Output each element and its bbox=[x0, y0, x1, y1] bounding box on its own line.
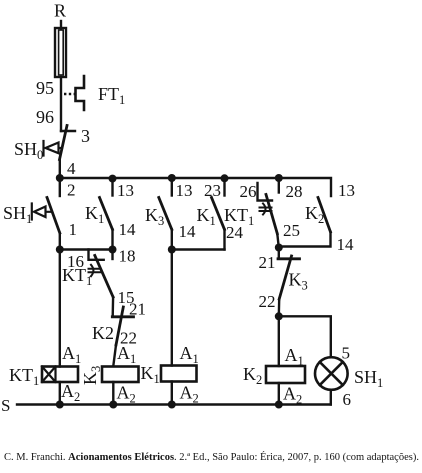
svg-text:S: S bbox=[1, 396, 10, 415]
main bus wire bbox=[60, 178, 331, 196]
svg-text:3: 3 bbox=[81, 126, 90, 146]
wire coil K1 to bus S bbox=[171, 382, 173, 405]
svg-text:26: 26 bbox=[240, 182, 257, 201]
pushbutton SH0 blade bbox=[60, 126, 68, 160]
junction dot K3 branch bbox=[168, 246, 176, 254]
junction dot node 25 bbox=[275, 244, 283, 252]
wire 25 to node bbox=[277, 234, 279, 248]
wire K3 node to coil K1 bbox=[171, 250, 173, 366]
svg-text:K3: K3 bbox=[145, 205, 164, 228]
stub 18 bbox=[111, 250, 113, 260]
wire fuse to node 95 bbox=[60, 77, 62, 131]
contact K2 NC blade bbox=[116, 307, 123, 345]
contact K2 13-14 blade bbox=[318, 198, 331, 233]
junction dot 16/18 node bbox=[109, 246, 117, 254]
svg-text:K1: K1 bbox=[85, 203, 104, 226]
junction dot node 2 bbox=[56, 174, 64, 182]
junction dot K1 13 bbox=[109, 175, 117, 183]
junction dot S-K2 bbox=[275, 401, 283, 409]
wire R to fuse bbox=[60, 21, 62, 29]
svg-text:SH1: SH1 bbox=[3, 203, 32, 226]
wire 22 to node bbox=[278, 299, 281, 316]
svg-text:5: 5 bbox=[342, 344, 351, 363]
lamp SH1 circle bbox=[315, 357, 348, 390]
svg-text:K2: K2 bbox=[92, 323, 114, 343]
coil K3 body bbox=[102, 367, 139, 383]
contact K3 NC top wire bbox=[278, 248, 280, 259]
junction dot K3 13 bbox=[168, 174, 176, 182]
wire node1 to node18 bbox=[60, 248, 113, 250]
svg-text:21: 21 bbox=[259, 253, 276, 272]
fuse F1 outer bbox=[55, 28, 66, 77]
svg-text:A2: A2 bbox=[117, 383, 136, 406]
junction dot S-KT1 bbox=[56, 401, 64, 409]
timed contact KT1 blade bbox=[95, 256, 113, 298]
svg-text:25: 25 bbox=[283, 221, 300, 240]
contact K2 NC crossbar bbox=[112, 315, 133, 318]
svg-text:14: 14 bbox=[337, 235, 355, 254]
svg-text:A1: A1 bbox=[285, 345, 304, 368]
junction dot K1 23 bbox=[221, 174, 229, 182]
wire K3 branch to K1 23 branch bbox=[172, 248, 225, 250]
svg-text:13: 13 bbox=[176, 181, 193, 200]
stub 28 bbox=[278, 178, 280, 193]
contact K1 13-14 blade bbox=[100, 198, 113, 230]
coil K2 body bbox=[266, 366, 305, 383]
junction dot S-K1 bbox=[168, 401, 176, 409]
svg-text:A1: A1 bbox=[180, 343, 199, 366]
wire 22 to coil K3 bbox=[113, 345, 116, 366]
svg-text:C. M. Franchi. Acionamentos El: C. M. Franchi. Acionamentos Elétricos. 2… bbox=[4, 451, 419, 463]
svg-text:K1: K1 bbox=[197, 205, 216, 228]
wire K1 14 down bbox=[111, 230, 113, 250]
timed contact KT1 fixed 26 bbox=[258, 183, 273, 201]
lamp SH1 cross bbox=[320, 362, 343, 385]
junction dot node 1 bbox=[56, 246, 64, 254]
svg-text:13: 13 bbox=[117, 181, 134, 200]
pushbutton SH1 actuator bbox=[32, 204, 52, 220]
svg-text:K2: K2 bbox=[243, 364, 262, 387]
timed contact KT1 right delay symbol bbox=[260, 204, 272, 215]
overload relay contact FT1 bbox=[76, 76, 85, 110]
timed contact KT1 right blade bbox=[266, 195, 277, 234]
junction dot node 26/28 bbox=[275, 174, 283, 182]
wire K3 14 down bbox=[171, 230, 173, 250]
contact K3 13-14 stub bbox=[171, 178, 173, 196]
svg-text:95: 95 bbox=[36, 78, 54, 98]
wire coil KT1 to bus S bbox=[59, 382, 61, 405]
svg-text:A2: A2 bbox=[180, 383, 199, 406]
svg-text:14: 14 bbox=[179, 222, 197, 241]
svg-text:K3: K3 bbox=[289, 270, 308, 293]
wire lamp to bus S bbox=[330, 390, 332, 405]
wire node 22 to lamp bbox=[279, 316, 331, 357]
svg-text:14: 14 bbox=[119, 220, 137, 239]
wire K1 24 down bbox=[223, 230, 225, 250]
pushbutton SH0 actuator bbox=[44, 141, 63, 156]
wire node 4 bbox=[59, 159, 61, 178]
svg-text:SH0: SH0 bbox=[14, 139, 43, 162]
timed contact KT1 delay symbol bbox=[89, 265, 101, 276]
svg-text:6: 6 bbox=[343, 390, 352, 409]
contact K3 NC blade bbox=[279, 256, 291, 299]
svg-text:22: 22 bbox=[259, 292, 276, 311]
coil K1 body bbox=[161, 366, 197, 382]
contact K3 NC crossbar bbox=[278, 257, 300, 260]
svg-text:K1: K1 bbox=[141, 363, 160, 386]
svg-text:R: R bbox=[54, 1, 66, 21]
fuse F1 inner bbox=[59, 30, 64, 75]
svg-text:1: 1 bbox=[69, 220, 78, 239]
pushbutton SH0 fixed tick node 3 bbox=[61, 130, 75, 132]
junction dot node 22 bbox=[275, 312, 283, 320]
dotted actuator link FT1 bbox=[64, 93, 77, 96]
coil KT1 body bbox=[42, 367, 78, 383]
svg-text:2: 2 bbox=[67, 181, 76, 200]
contact K1 23-24 blade bbox=[212, 198, 225, 230]
svg-text:SH1: SH1 bbox=[354, 367, 383, 390]
contact K1 13-14 stub bbox=[111, 178, 113, 196]
wire K2 14 down and left to node 25 bbox=[279, 232, 331, 247]
svg-text:KT1: KT1 bbox=[224, 205, 254, 228]
svg-text:13: 13 bbox=[338, 181, 355, 200]
contact K3 13-14 blade bbox=[159, 198, 172, 230]
timed contact KT1 fixed 16 bbox=[89, 250, 104, 260]
svg-text:28: 28 bbox=[286, 182, 303, 201]
svg-text:18: 18 bbox=[119, 247, 136, 266]
svg-text:KT1: KT1 bbox=[9, 365, 39, 388]
wire node1 to coil KT1 bbox=[59, 250, 61, 367]
pushbutton SH1 stub 2 bbox=[59, 178, 61, 196]
bottom bus S bbox=[17, 403, 331, 405]
wire coil K2 to bus S bbox=[278, 383, 280, 405]
svg-text:4: 4 bbox=[67, 159, 76, 178]
svg-text:A2: A2 bbox=[283, 384, 302, 407]
junction dot S-K3 bbox=[109, 401, 117, 409]
pushbutton SH1 blade bbox=[47, 198, 60, 234]
contact K1 23-24 stub bbox=[223, 178, 225, 196]
svg-text:A2: A2 bbox=[61, 381, 80, 404]
wire 15 to contact 21 bbox=[111, 297, 114, 317]
svg-text:K3: K3 bbox=[80, 366, 103, 385]
wire coil K3 to bus S bbox=[112, 382, 114, 405]
wire node 22 to coil K2 bbox=[278, 316, 280, 366]
svg-text:96: 96 bbox=[36, 107, 54, 127]
svg-text:A1: A1 bbox=[62, 343, 81, 366]
svg-text:FT1: FT1 bbox=[98, 84, 125, 107]
wire SH1 to node 1 bbox=[59, 233, 61, 250]
coil KT1 X box bbox=[42, 367, 56, 383]
svg-text:24: 24 bbox=[226, 223, 244, 242]
